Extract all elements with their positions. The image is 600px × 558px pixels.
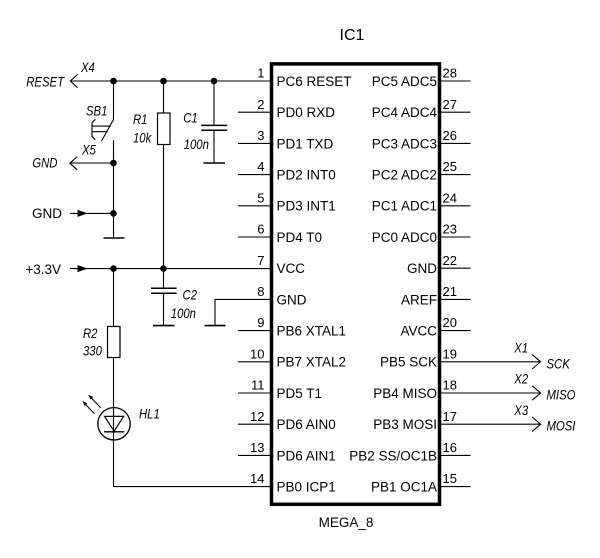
svg-text:100n: 100n [171,306,196,321]
op-amp/IC body U: IC1 MEGA_8 rectangle [272,64,440,504]
LED HL1 cathode bar [104,431,124,433]
svg-text:24: 24 [443,190,457,205]
svg-text:PD2 INT0: PD2 INT0 [277,168,336,183]
svg-text:19: 19 [443,346,457,361]
svg-text:PB3 MOSI: PB3 MOSI [373,417,437,432]
wire: RESET net horizontal to pin 1 [71,80,272,82]
wire: pin 21 lead [439,298,471,300]
svg-text:3: 3 [257,128,264,143]
reference designator R1 [133,112,147,127]
svg-text:MISO: MISO [547,388,576,403]
wire: pin 27 lead [439,111,471,113]
GND filled arrow [78,210,88,217]
svg-text:PC3 ADC3: PC3 ADC3 [372,136,437,151]
svg-text:PC4 ADC4: PC4 ADC4 [372,105,438,120]
wire: C2 top lead [163,269,165,288]
svg-text:C2: C2 [183,288,198,303]
svg-text:16: 16 [443,440,457,455]
svg-text:IC1: IC1 [340,27,365,44]
wire: pin 6 lead [238,236,271,238]
junction: RESET / C1 node [211,78,218,85]
wire: C1 bottom lead [213,131,215,163]
node label X4 [80,60,95,75]
ground bar symbol [104,237,125,239]
wire: SB1 top contact from RESET line [113,81,115,120]
resistor R2 body [108,327,121,358]
wire: pin 3 lead [238,142,271,144]
wire: pin 23 lead [439,236,471,238]
value label 10k [133,130,152,145]
connector X3 open arrow [532,417,540,431]
svg-text:10: 10 [250,346,264,361]
wire: X5 net horizontal [70,162,114,164]
svg-text:7: 7 [257,253,264,268]
svg-text:PB4 MISO: PB4 MISO [373,386,437,401]
wire: pin 15 lead [439,486,471,488]
svg-text:11: 11 [251,378,265,393]
LED HL1 circle [98,408,130,440]
capacitor C2 bottom plate [151,292,177,294]
svg-text:VCC: VCC [277,261,306,276]
svg-text:GND: GND [32,206,62,221]
svg-text:PB0 ICP1: PB0 ICP1 [277,480,336,495]
net label MISO [547,388,576,403]
LED emission arrow 1 [89,396,101,408]
reference designator R2 [83,326,98,341]
ground bar for C2 [153,325,175,327]
junction: +3.3V / R1 / C2 node [160,265,167,272]
svg-text:PB7 XTAL2: PB7 XTAL2 [277,355,347,370]
svg-text:MEGA_8: MEGA_8 [319,515,374,530]
svg-text:C1: C1 [183,110,197,125]
svg-text:26: 26 [443,128,457,143]
svg-text:GND: GND [32,156,57,171]
junction: X5 / SB1 node [110,160,117,167]
wire: pin 9 lead [238,330,271,332]
svg-text:PD3 INT1: PD3 INT1 [277,199,336,214]
svg-text:R2: R2 [83,326,98,341]
node label X5 [81,142,96,157]
node label X2 [513,372,528,387]
svg-text:PD4 T0: PD4 T0 [277,230,323,245]
svg-text:GND: GND [407,261,437,276]
svg-text:27: 27 [443,97,457,112]
connector X5 open arrow (GND) [70,157,77,170]
ground bar for C1 [204,162,226,164]
svg-text:PC0 ADC0: PC0 ADC0 [372,230,437,245]
wire: R2 bottom lead to LED [113,358,115,408]
switch SB1 blade [102,120,114,142]
reference designator C1 [183,110,197,125]
svg-text:X1: X1 [513,340,528,355]
wire: pin net to connector X1 [439,361,540,363]
wire: pin 10 lead [238,361,271,363]
wire: pin 25 lead [439,174,471,176]
wire: pin 20 lead [439,330,471,332]
value label 330 [83,344,102,359]
svg-text:X5: X5 [81,142,96,157]
switch SB1 actuator bar 1 [92,125,111,127]
svg-text:23: 23 [443,222,457,237]
wire: pin 24 lead [439,205,471,207]
wire: pin 2 lead [238,111,271,113]
svg-text:PC5 ADC5: PC5 ADC5 [372,74,437,89]
LED HL1 triangle (anode) [105,416,124,431]
svg-text:20: 20 [443,315,457,330]
wire: pin 26 lead [439,142,471,144]
reference designator HL1 [139,406,160,421]
wire: R1 bottom lead [163,145,165,269]
svg-text:15: 15 [443,471,457,486]
svg-text:28: 28 [443,66,457,81]
svg-text:X4: X4 [80,60,95,75]
svg-text:17: 17 [443,409,457,424]
svg-text:PD0 RXD: PD0 RXD [277,105,336,120]
svg-text:25: 25 [443,159,457,174]
capacitor C1 top plate [201,124,227,126]
junction: RESET / R1 node [160,78,167,85]
resistor R1 body [158,113,171,145]
svg-text:AREF: AREF [401,292,437,307]
svg-text:GND: GND [277,292,307,307]
wire: +3.3V net horizontal to pin 7 VCC [70,268,271,270]
svg-text:+3.3V: +3.3V [25,262,61,277]
node label X3 [513,403,528,418]
svg-text:PB5 SCK: PB5 SCK [380,355,437,370]
svg-text:SCK: SCK [547,356,571,371]
reference designator SB1 [86,104,107,119]
connector X2 open arrow [532,386,540,400]
svg-text:PD5 T1: PD5 T1 [277,386,323,401]
svg-text:PB2 SS/OC1B: PB2 SS/OC1B [349,448,437,463]
svg-text:21: 21 [443,284,457,299]
connector X1 open arrow [532,355,540,369]
svg-text:18: 18 [443,378,457,393]
junction: GND node [110,210,117,217]
svg-text:6: 6 [257,222,264,237]
wire: SB1 bottom contact down to ground bar [113,140,115,238]
wire: pin 12 lead [238,423,271,425]
wire: R1 top lead [163,81,165,113]
wire: pin 16 lead [439,454,471,456]
value label 100n (C2) [171,306,196,321]
svg-text:X3: X3 [513,403,528,418]
svg-text:5: 5 [257,190,264,205]
svg-text:330: 330 [83,344,102,359]
wire: pin 8 GND to ground bar [215,299,271,325]
capacitor C1 bottom plate [201,129,227,131]
svg-text:PD1 TXD: PD1 TXD [277,136,334,151]
wire: R2 top lead [113,269,115,327]
svg-text:2: 2 [257,97,264,112]
wire: pin 4 lead [238,174,271,176]
junction: RESET / SB1 node [110,78,117,85]
junction: +3.3V / R2 node [110,265,117,272]
svg-text:PC2 ADC2: PC2 ADC2 [372,168,437,183]
svg-text:22: 22 [443,253,457,268]
wire: C1 top lead [213,81,215,125]
svg-text:AVCC: AVCC [400,324,437,339]
value label 100n (C1) [184,137,209,152]
svg-text:12: 12 [250,409,264,424]
wire: pin net to connector X2 [439,392,540,394]
+3.3V filled arrow [78,265,88,272]
svg-text:RESET: RESET [26,75,65,90]
LED emission arrow 2 [83,402,94,414]
svg-text:PD6 AIN1: PD6 AIN1 [277,448,336,463]
wire: pin 13 lead [238,454,271,456]
svg-text:100n: 100n [184,137,209,152]
svg-text:MOSI: MOSI [547,419,576,434]
wire: pin 22 lead [439,267,471,269]
net label MOSI [547,419,576,434]
net label SCK [547,356,571,371]
svg-text:4: 4 [257,159,264,174]
reference designator C2 [183,288,198,303]
switch SB1 actuator bar 2 [92,131,107,133]
switch SB1 actuator bracket [92,119,95,139]
connector X4 open arrow (RESET) [70,74,77,87]
wire: pin 28 lead [439,80,471,82]
wire: pin 11 lead [238,392,271,394]
svg-text:14: 14 [250,471,264,486]
svg-text:PB6 XTAL1: PB6 XTAL1 [277,324,347,339]
svg-text:SB1: SB1 [86,104,107,119]
node label X1 [513,340,528,355]
wire: GND feed horizontal [70,212,114,214]
wire: C2 bottom lead [163,294,165,326]
wire: vertical through LED [113,408,115,440]
net label RESET [26,75,65,90]
svg-text:10k: 10k [133,130,152,145]
svg-text:1: 1 [257,66,264,81]
svg-text:8: 8 [257,284,264,299]
ground bar for pin 8 [205,325,226,327]
svg-text:PB1 OC1A: PB1 OC1A [371,480,437,495]
wire: pin net to connector X3 [439,423,540,425]
svg-text:9: 9 [257,315,264,330]
wire: pin 5 lead [238,205,271,207]
svg-text:R1: R1 [133,112,147,127]
capacitor C2 top plate [151,287,177,289]
svg-text:PC6 RESET: PC6 RESET [277,74,352,89]
svg-text:HL1: HL1 [139,406,160,421]
svg-text:X2: X2 [513,372,528,387]
svg-text:13: 13 [250,440,264,455]
svg-text:PD6 AIN0: PD6 AIN0 [277,417,336,432]
net label GND (italic) [32,156,57,171]
svg-text:PC1 ADC1: PC1 ADC1 [372,199,437,214]
wire: LED cathode down and right to pin 14 [114,440,272,487]
